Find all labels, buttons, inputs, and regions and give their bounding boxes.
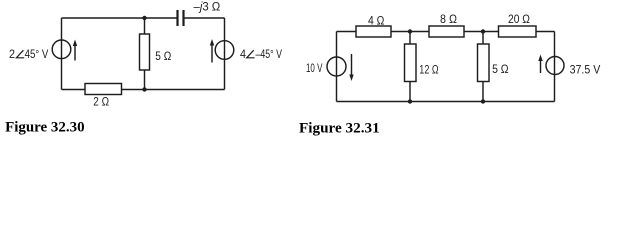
source 37.5V circle	[546, 57, 564, 75]
node junction bottom-left Fig32.31	[408, 99, 412, 103]
svg-text:2 Ω: 2 Ω	[93, 95, 109, 109]
node junction top-right Fig32.31	[481, 29, 485, 33]
resistor 12 ohm box	[405, 44, 417, 82]
wire left vertical Fig32.30	[61, 18, 63, 90]
svg-text:45° V: 45° V	[25, 47, 49, 61]
svg-text:5 Ω: 5 Ω	[492, 62, 509, 76]
wire top-left segment Fig32.30	[62, 17, 177, 19]
resistor 5 ohm box Fig32.31	[478, 44, 490, 82]
svg-text:20 Ω: 20 Ω	[508, 12, 530, 26]
svg-text:10 V: 10 V	[306, 61, 322, 75]
source V2 circle 4angle-45	[215, 41, 234, 60]
wire 12-ohm branch Fig32.31	[409, 32, 411, 102]
source V1 label 2angle45V	[9, 47, 48, 61]
node junction bottom Fig32.30	[142, 87, 146, 91]
svg-text:Figure 32.30: Figure 32.30	[5, 120, 85, 136]
source 37.5V arrow up	[538, 55, 542, 74]
svg-text:37.5 V: 37.5 V	[570, 63, 601, 77]
source 10V circle	[327, 57, 346, 76]
wire bottom-left segment Fig32.30	[62, 89, 86, 91]
svg-text:5 Ω: 5 Ω	[155, 49, 171, 63]
node junction top-left Fig32.31	[408, 29, 412, 33]
svg-text:–45° V: –45° V	[256, 47, 283, 61]
resistor 4 ohm box	[356, 26, 391, 37]
wire right vertical Fig32.31	[554, 32, 556, 102]
svg-text:4: 4	[240, 47, 246, 61]
node junction top Fig32.30	[142, 16, 146, 20]
wire right vertical Fig32.30	[224, 18, 226, 90]
wire 5-ohm branch Fig32.31	[482, 32, 484, 102]
wire bottom-right segment Fig32.30	[122, 89, 225, 91]
source V1 arrow up	[73, 40, 77, 61]
capacitor -j3 plates	[178, 10, 184, 26]
wire bottom rail Fig32.31	[337, 101, 555, 103]
wire top-right segment Fig32.30	[185, 17, 225, 19]
resistor 8 ohm box	[429, 26, 464, 37]
svg-text:12 Ω: 12 Ω	[419, 63, 438, 77]
resistor R 5 ohm box Fig32.30	[140, 34, 150, 70]
svg-text:4 Ω: 4 Ω	[368, 14, 384, 28]
node junction bottom-right Fig32.31	[481, 99, 485, 103]
resistor R 2 ohm box Fig32.30	[85, 84, 122, 95]
wire left vertical Fig32.31	[336, 32, 338, 102]
source 10V arrow down	[349, 54, 353, 81]
source V2 label 4angle-45V	[240, 47, 282, 61]
svg-text:8 Ω: 8 Ω	[440, 12, 457, 26]
resistor 20 ohm box	[499, 26, 537, 37]
source V1 circle 2angle45	[52, 40, 71, 59]
source V2 arrow up	[210, 39, 214, 63]
svg-text:2: 2	[9, 47, 15, 61]
svg-text:Figure 32.31: Figure 32.31	[299, 121, 380, 137]
svg-text:–j3 Ω: –j3 Ω	[194, 0, 221, 14]
wire top rail segments Fig32.31	[337, 31, 555, 33]
wire 5-ohm branch Fig32.30	[144, 18, 146, 90]
